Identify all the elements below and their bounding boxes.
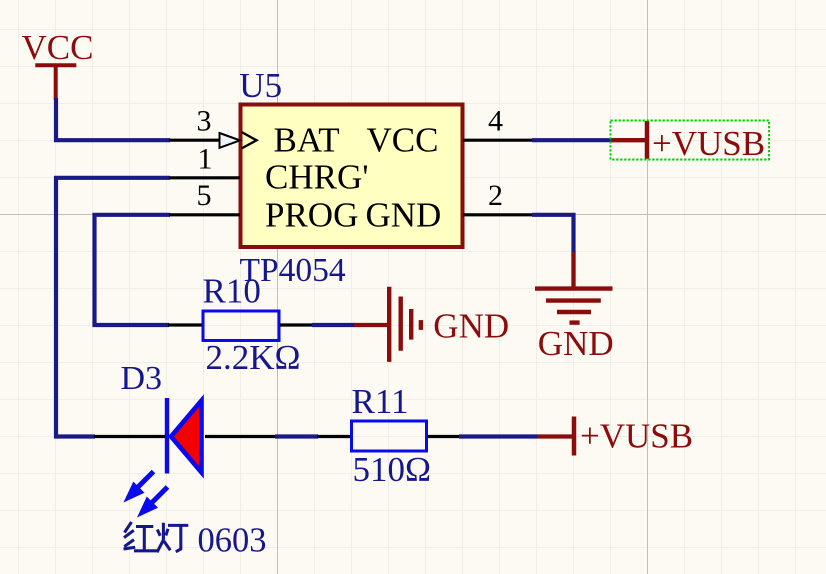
svg-text:D3: D3 bbox=[121, 360, 163, 397]
svg-text:510Ω: 510Ω bbox=[353, 450, 432, 489]
svg-text:R10: R10 bbox=[203, 272, 261, 311]
value label red-lamp 0603 (Chinese glyphs drawn as strokes) bbox=[124, 522, 189, 552]
svg-text:2.2KΩ: 2.2KΩ bbox=[206, 338, 301, 377]
svg-text:1: 1 bbox=[198, 142, 213, 175]
svg-text:3: 3 bbox=[197, 104, 212, 137]
svg-text:+VUSB: +VUSB bbox=[580, 417, 693, 456]
resistor R11 bbox=[317, 382, 460, 489]
pin 1 (CHRG') bbox=[169, 142, 240, 178]
R11 left lead bbox=[317, 435, 350, 438]
svg-text:BAT: BAT bbox=[274, 120, 340, 159]
pin 4 lead bbox=[463, 139, 533, 142]
svg-text:CHRG': CHRG' bbox=[265, 158, 369, 197]
IC U5 (TP4054) bbox=[239, 66, 462, 289]
pin 2 (GND) bbox=[463, 179, 533, 215]
ground GND (rotated, right of R10) bbox=[354, 287, 509, 362]
D3 triangle bbox=[171, 401, 202, 473]
wire VCC to pin 3 bbox=[56, 98, 170, 140]
R10 body bbox=[203, 311, 279, 341]
LED D3 bbox=[94, 360, 276, 516]
R10 right lead bbox=[280, 323, 313, 326]
U5 body bbox=[241, 105, 463, 248]
svg-text:U5: U5 bbox=[239, 66, 282, 105]
svg-text:VCC: VCC bbox=[22, 28, 94, 67]
pin 1 lead bbox=[169, 176, 240, 179]
svg-text:GND: GND bbox=[433, 307, 509, 346]
light emission arrow 2 bbox=[150, 487, 168, 505]
pin 5 lead bbox=[169, 213, 240, 216]
D3 right lead bbox=[205, 435, 276, 438]
power port VCC bbox=[22, 28, 94, 100]
selection box around +VUSB bbox=[611, 121, 770, 160]
svg-text:R11: R11 bbox=[352, 382, 409, 421]
wire pin 5 down to R10 bbox=[95, 215, 171, 325]
power port +VUSB (top) bbox=[611, 121, 765, 163]
svg-text:GND: GND bbox=[366, 195, 442, 234]
svg-text:+VUSB: +VUSB bbox=[652, 124, 765, 163]
input arrow bbox=[220, 133, 241, 148]
svg-text:GND: GND bbox=[538, 324, 614, 363]
pin 2 lead bbox=[463, 213, 533, 216]
D3 left lead bbox=[94, 435, 166, 438]
pin 3 lead bbox=[169, 139, 220, 142]
power port +VUSB (bottom) bbox=[538, 417, 694, 456]
wire R10 to GND bbox=[312, 323, 355, 327]
D3 cathode bar bbox=[165, 398, 169, 474]
R11 right lead bbox=[428, 435, 461, 438]
pin 5 (PROG) bbox=[169, 179, 240, 215]
light emission arrow 1 bbox=[136, 472, 154, 490]
resistor R10 bbox=[168, 272, 313, 378]
R11 body bbox=[352, 421, 427, 451]
pin 4 (VCC) bbox=[463, 104, 533, 140]
ground GND (below pin 2) bbox=[535, 252, 614, 363]
wire pin 2 to GND bbox=[532, 215, 574, 253]
wire pin 1 down to LED anode row bbox=[56, 178, 170, 437]
wire pin 4 to +VUSB bbox=[532, 138, 612, 142]
R10 left lead bbox=[168, 323, 202, 326]
svg-text:5: 5 bbox=[197, 179, 212, 212]
svg-text:2: 2 bbox=[488, 179, 503, 212]
wire LED to R11 bbox=[275, 434, 318, 438]
pin 3 (BAT) with input arrow bbox=[169, 104, 257, 148]
svg-text:4: 4 bbox=[488, 104, 503, 137]
svg-text:PROG: PROG bbox=[265, 195, 358, 234]
svg-text:VCC: VCC bbox=[367, 120, 439, 159]
wire R11 to +VUSB bbox=[459, 434, 538, 438]
svg-text:0603: 0603 bbox=[198, 522, 267, 560]
